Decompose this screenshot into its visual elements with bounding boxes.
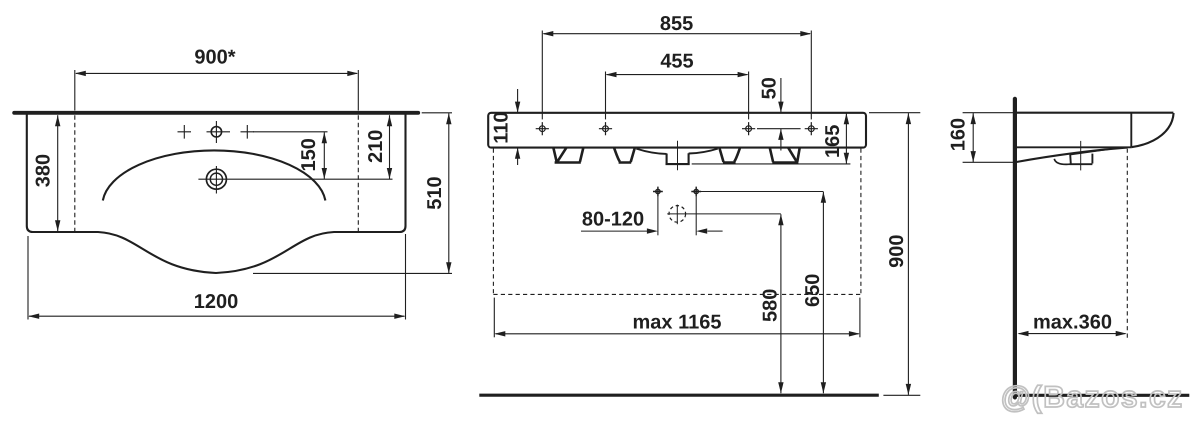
dimension 50	[757, 78, 801, 151]
svg-text:max.360: max.360	[1033, 311, 1112, 333]
dimension 1200	[28, 234, 406, 320]
dimension 110	[517, 89, 519, 165]
wall line	[1013, 99, 1017, 398]
bowl underside curve side	[1016, 148, 1127, 162]
dimension 900*	[75, 70, 359, 111]
basin front rectangle	[488, 113, 866, 148]
countertop edge bar	[14, 111, 418, 115]
svg-text:@(Bazos.cz: @(Bazos.cz	[1001, 381, 1184, 414]
svg-text:80-120: 80-120	[582, 209, 644, 231]
floor line right	[1013, 394, 1189, 397]
svg-text:900*: 900*	[194, 47, 235, 69]
svg-text:855: 855	[660, 13, 693, 35]
dimension 80-120	[581, 196, 723, 235]
siphon position cross left	[653, 187, 663, 197]
svg-text:650: 650	[802, 274, 824, 307]
trap bend arc	[1054, 159, 1070, 165]
svg-text:580: 580	[760, 289, 782, 322]
right tap hole mark	[241, 125, 255, 139]
svg-text:165: 165	[822, 125, 844, 158]
dimension max.360	[1019, 333, 1126, 335]
svg-text:160: 160	[948, 118, 970, 151]
left tap hole mark	[178, 125, 192, 139]
siphon position cross right	[691, 187, 701, 197]
svg-text:1200: 1200	[194, 291, 239, 313]
dimension 855	[542, 31, 811, 120]
center tap hole	[211, 127, 221, 137]
drain extension line	[198, 178, 392, 180]
dashed projection line left	[74, 115, 76, 231]
mounting hole 3	[742, 122, 755, 135]
dimension max 1165	[494, 298, 860, 338]
mounting hole 1	[536, 122, 549, 135]
dimension 150	[253, 132, 328, 179]
rim inner vertical	[1130, 113, 1132, 147]
drain box front	[666, 153, 690, 164]
mounting bracket tab 1	[553, 148, 583, 163]
dimension 650	[822, 192, 824, 393]
dashed projection line right	[357, 115, 359, 231]
mounting bracket tab 3	[720, 148, 740, 162]
svg-text:210: 210	[365, 130, 387, 163]
dimension 380	[57, 115, 59, 231]
dimension 455	[606, 72, 749, 120]
svg-text:510: 510	[424, 176, 446, 209]
basin front nose curve	[1131, 113, 1173, 147]
basin top edge side	[1017, 112, 1173, 114]
mounting bracket tab 4	[770, 148, 800, 163]
svg-text:50: 50	[758, 77, 780, 99]
mounting hole 2	[599, 122, 612, 135]
inner bowl rim arc	[103, 150, 326, 200]
drain box side	[1070, 154, 1093, 165]
mounting bracket tab 2	[614, 148, 635, 162]
svg-text:380: 380	[33, 154, 55, 187]
drain connector line to 580	[667, 213, 781, 215]
dashed depth line	[1126, 149, 1128, 341]
svg-text:150: 150	[298, 138, 320, 171]
mounting hole 4	[805, 122, 818, 135]
bowl underside curve front	[636, 149, 718, 154]
dimension 580	[780, 214, 782, 393]
bowl inner wedge line	[1070, 148, 1121, 155]
floor line	[479, 394, 879, 397]
svg-text:900: 900	[886, 235, 908, 268]
basin body outline	[27, 114, 406, 273]
dimension 210	[389, 115, 391, 179]
drain position symbol	[669, 206, 686, 223]
dimension 165	[692, 113, 851, 164]
svg-text:max 1165: max 1165	[633, 312, 722, 334]
svg-text:110: 110	[491, 111, 513, 143]
centerline through drain	[677, 141, 679, 171]
drain centerline side	[1080, 141, 1082, 171]
dimension 510	[253, 113, 452, 274]
dimension 900	[869, 113, 920, 396]
dashed cabinet envelope	[493, 149, 861, 295]
dimension 160	[963, 113, 1017, 163]
rim bottom line	[1017, 146, 1131, 148]
cross connector line to 650	[701, 191, 824, 193]
drain hole	[206, 169, 226, 189]
svg-text:455: 455	[660, 50, 693, 72]
